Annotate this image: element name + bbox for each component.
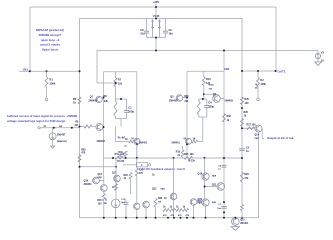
wire left box top <box>104 71 137 73</box>
svg-text:470: 470 <box>81 152 86 155</box>
transistor Q22 <box>152 175 177 200</box>
svg-text:10u: 10u <box>217 208 221 210</box>
svg-text:2N5089 accept?: 2N5089 accept? <box>39 33 62 37</box>
flag +30V label <box>153 0 159 4</box>
svg-text:open loop ~2: open loop ~2 <box>41 38 60 42</box>
svg-text:100: 100 <box>252 124 257 127</box>
svg-text:R1: R1 <box>50 78 54 82</box>
junction y158 a <box>112 157 114 159</box>
wire second rail <box>80 18 243 20</box>
svg-text:R15b: R15b <box>209 85 215 87</box>
svg-text:100k: 100k <box>260 83 266 86</box>
resistor R7 <box>114 72 123 99</box>
junction supply drop railC <box>223 50 225 52</box>
RC compensation right <box>197 99 214 142</box>
junction supply stem railA <box>155 6 157 8</box>
svg-text:470: 470 <box>139 172 144 175</box>
junction y158 b <box>173 157 175 159</box>
wire output net <box>242 70 277 72</box>
transistor Q17b <box>100 177 107 191</box>
junction bus-R8 <box>79 126 81 128</box>
wire left col lower <box>115 158 117 199</box>
current source I2 <box>49 128 66 146</box>
voltage source V1 name <box>153 15 160 18</box>
wire supply bottom stem <box>155 38 157 51</box>
junction base link <box>115 82 117 84</box>
wire mid rail <box>97 50 318 52</box>
capacitor C8 <box>140 19 149 38</box>
junction supply bottom <box>155 37 157 39</box>
wire right tail <box>204 158 206 200</box>
capacitor C6 <box>218 165 226 170</box>
junction y158 d <box>223 157 225 159</box>
label bias b <box>59 125 63 128</box>
junction RC top <box>120 98 122 100</box>
resistor R26 <box>241 119 244 127</box>
resistor R26 labels <box>244 111 249 118</box>
svg-text:Q15: Q15 <box>240 218 245 221</box>
resistor R13 <box>154 198 167 218</box>
junction supply midrail <box>155 50 157 52</box>
junction input-bus <box>79 70 81 72</box>
wire left border drop <box>29 7 31 71</box>
junction Q1-box <box>103 97 105 99</box>
port open circle bias <box>38 127 40 129</box>
wire bias source link <box>40 127 80 129</box>
svg-text:2N4403: 2N4403 <box>225 99 234 102</box>
svg-text:Q17: Q17 <box>112 173 117 175</box>
junction supply stem railB <box>155 18 157 20</box>
resistor R18 <box>192 137 203 143</box>
resistor R19 <box>176 146 184 158</box>
transistor Q21 <box>205 183 225 191</box>
svg-text:2N4401: 2N4401 <box>240 222 249 225</box>
transistor Q16 <box>84 177 104 186</box>
resistor R2 output branch <box>257 71 267 98</box>
svg-text:R33: R33 <box>158 198 163 200</box>
resistor R16 <box>202 71 211 99</box>
svg-text:set: set <box>158 201 162 204</box>
junction Q3-box <box>136 143 138 145</box>
transistor Q1 <box>89 96 104 103</box>
transistor Q2 <box>96 124 104 131</box>
wire left box left side <box>103 72 105 177</box>
comment block mid-left <box>7 114 78 123</box>
svg-text:22k: 22k <box>185 100 190 103</box>
svg-text:10u: 10u <box>140 33 145 36</box>
transistor Q3 <box>131 138 148 144</box>
resistor R22 <box>170 207 176 212</box>
svg-text:R20: R20 <box>184 153 189 156</box>
comment output <box>267 136 294 140</box>
wire left box right side <box>136 72 138 158</box>
current source I1 <box>103 199 120 218</box>
svg-text:R32: R32 <box>227 115 232 118</box>
capacitor C7 <box>217 204 227 210</box>
wire left bus <box>79 19 81 218</box>
port open circle <box>45 98 48 101</box>
transistor Q18 <box>134 203 140 218</box>
junction Q6-box <box>186 143 188 145</box>
svg-text:2N4403: 2N4403 <box>97 140 106 143</box>
label under y158 right <box>188 161 196 163</box>
junction row c <box>180 217 182 219</box>
label fb small <box>255 84 258 89</box>
svg-text:22k: 22k <box>104 100 109 103</box>
svg-text:Output at 1/2 of rail: Output at 1/2 of rail <box>267 136 294 140</box>
junction row a <box>167 217 169 219</box>
svg-text:2N4401: 2N4401 <box>139 141 148 144</box>
svg-text:npn: npn <box>255 138 260 140</box>
svg-text:Q14: Q14 <box>255 134 260 137</box>
junction bias 2 <box>71 127 73 129</box>
junction input-border <box>29 70 31 72</box>
resistor R35 on bus <box>78 148 86 162</box>
transistor Q6 <box>171 138 191 144</box>
svg-text:Q19: Q19 <box>198 173 203 175</box>
junction row d <box>186 217 188 219</box>
svg-text:Rc 4k7: Rc 4k7 <box>118 137 126 140</box>
wire bias link <box>80 166 117 168</box>
resistor R32 <box>223 114 232 123</box>
transistor Q20b <box>190 198 203 218</box>
transistor Q16 label top <box>98 174 103 179</box>
svg-text:12k: 12k <box>118 83 123 86</box>
wire right rail drop <box>275 7 277 71</box>
wire right box top <box>187 70 224 72</box>
transistor Q17 <box>112 173 120 191</box>
svg-text:buffered version of input sign: buffered version of input signal for pro… <box>7 114 78 118</box>
junction C7 top <box>223 201 225 203</box>
junction rail drop out <box>275 70 277 72</box>
resistor R8 <box>74 122 96 128</box>
svg-text:VB2: VB2 <box>224 67 230 71</box>
wire output collector link <box>242 127 255 129</box>
transistor Q5 <box>169 95 187 103</box>
junction C10 rail <box>125 217 127 219</box>
junction Q15 rail <box>234 217 236 219</box>
svg-text:100: 100 <box>245 102 250 105</box>
svg-text:1m: 1m <box>103 202 106 205</box>
svg-text:2N4403: 2N4403 <box>89 100 98 103</box>
wire Q4 base link <box>204 94 214 96</box>
svg-text:Spice basis: Spice basis <box>42 48 59 52</box>
svg-text:Q22: Q22 <box>152 188 157 190</box>
wire right box left side <box>186 71 188 158</box>
junction R13 rail <box>155 217 157 219</box>
junction R16 base <box>203 93 205 95</box>
junction out net <box>241 70 243 72</box>
voltage source V2 <box>315 51 324 63</box>
svg-text:npn: npn <box>161 188 166 190</box>
svg-text:R36: R36 <box>124 175 129 177</box>
resistor R25 <box>241 97 250 105</box>
resistor R21 <box>163 207 169 212</box>
label bias a <box>43 126 46 128</box>
resistor R24 <box>183 207 189 212</box>
wire Q3 column <box>116 127 137 159</box>
svg-text:R15: R15 <box>184 95 189 98</box>
resistor R10 <box>119 151 128 158</box>
svg-text:100: 100 <box>190 153 195 156</box>
wire input base link <box>97 82 116 84</box>
wire V+ rail top <box>30 6 276 8</box>
svg-text:R16: R16 <box>206 78 211 81</box>
junction leftbox y158 <box>136 157 138 159</box>
svg-text:(approx): (approx) <box>57 140 67 143</box>
resistor R15 label <box>184 95 189 103</box>
svg-text:2N4403: 2N4403 <box>169 100 178 103</box>
label Q2 value <box>97 140 106 143</box>
junction Q21 link <box>204 186 206 188</box>
svg-text:npn: npn <box>212 176 217 178</box>
transistor Q20 <box>197 199 216 218</box>
transistor Q14 <box>255 125 263 140</box>
svg-text:npn: npn <box>212 202 217 204</box>
wire right bus <box>241 19 243 218</box>
svg-text:MPSA18 (preferred): MPSA18 (preferred) <box>36 28 64 32</box>
svg-text:Rf 22k: Rf 22k <box>188 161 196 163</box>
resistor R1 <box>45 71 56 98</box>
net label OUT <box>278 69 286 73</box>
ground bias stem <box>51 146 55 148</box>
RC compensation left <box>114 99 134 127</box>
wire directive stub <box>123 164 136 166</box>
transistor Q19b <box>143 201 150 218</box>
capacitor C10 <box>121 199 128 218</box>
svg-text:AC DC feedback network - low f: AC DC feedback network - low fc <box>142 167 186 171</box>
svg-text:set: set <box>59 125 63 128</box>
junction y158 c <box>204 157 206 159</box>
svg-text:R25: R25 <box>245 98 250 101</box>
svg-text:10u: 10u <box>169 33 174 36</box>
svg-text:Q20: Q20 <box>197 201 202 203</box>
wire right supply drop <box>223 51 225 218</box>
junction R30 rail <box>103 217 105 219</box>
resistor R28 <box>241 172 250 182</box>
resistor R27 <box>247 124 257 130</box>
resistor R5 on bus <box>73 97 81 105</box>
wire lower mid <box>104 157 243 159</box>
junction R10 <box>125 157 127 159</box>
resistor R29 on bus <box>241 205 244 211</box>
svg-text:100k: 100k <box>50 82 56 86</box>
resistor R30 <box>97 191 105 217</box>
value row under resistors <box>163 214 190 217</box>
wire output node drop <box>262 128 264 138</box>
net label IN <box>23 68 28 72</box>
svg-text:V2: V2 <box>321 51 325 55</box>
svg-text:R30: R30 <box>97 200 102 202</box>
junction bus 108 <box>241 107 243 109</box>
net label VB2 <box>224 67 230 71</box>
junction rightbox rail <box>223 217 225 219</box>
svg-text:100p: 100p <box>208 106 214 109</box>
comment block top-left <box>36 28 64 52</box>
svg-text:2N5457: 2N5457 <box>57 133 66 136</box>
wire input net <box>19 70 80 72</box>
wire tail mid <box>173 158 175 218</box>
wire bottom rail <box>80 217 259 219</box>
junction C7 bot <box>223 211 225 213</box>
svg-text:100p: 100p <box>128 111 134 114</box>
junction right bus rail <box>241 217 243 219</box>
junction row b <box>173 217 175 219</box>
svg-text:2N4401: 2N4401 <box>171 141 180 144</box>
comment center <box>142 167 186 171</box>
ground symbol far right <box>315 62 321 66</box>
wire Q15 stem <box>234 225 236 226</box>
transistor Q19 <box>198 173 217 180</box>
junction Q20 rail <box>205 217 207 219</box>
junction Q19b rail <box>145 217 147 219</box>
svg-text:Rf 22k: Rf 22k <box>117 161 125 163</box>
svg-text:R28: R28 <box>244 173 249 176</box>
svg-text:R19: R19 <box>176 151 181 153</box>
svg-text:+30V: +30V <box>153 0 159 4</box>
svg-text:Q21: Q21 <box>212 183 217 186</box>
junction input-R1 <box>46 70 48 72</box>
svg-text:OUT1: OUT1 <box>278 69 286 73</box>
junction y158 e <box>241 157 243 159</box>
label under y158 <box>117 161 125 163</box>
port circle mid <box>148 164 150 166</box>
svg-text:usual 3 stacks: usual 3 stacks <box>40 43 61 47</box>
junction output node <box>257 70 259 72</box>
transistor Q15 <box>232 218 249 226</box>
junction bias link b <box>115 166 117 168</box>
transistor Q4 <box>209 85 234 103</box>
resistor R6 label <box>104 95 109 103</box>
wire supply stem <box>155 4 157 19</box>
svg-text:100: 100 <box>120 153 125 156</box>
capacitor C5 <box>239 147 250 154</box>
port open circle out <box>257 98 260 101</box>
wire mid rail left drop <box>96 51 98 84</box>
svg-text:47k: 47k <box>244 177 249 180</box>
wire ref stem <box>317 51 319 63</box>
junction Q2-box <box>103 126 105 128</box>
wire right col lower <box>136 158 138 203</box>
svg-text:2N4401: 2N4401 <box>84 183 93 186</box>
label col mid <box>118 137 126 140</box>
resistor R11 <box>115 153 125 159</box>
junction I1 rail <box>115 217 117 219</box>
ground symbol right-bottom <box>231 227 239 231</box>
resistor R23 <box>176 207 182 212</box>
junction Q18 rail <box>136 217 138 219</box>
svg-text:IN1: IN1 <box>23 68 28 72</box>
junction bias link a <box>79 166 81 168</box>
capacitor C9 <box>163 19 173 38</box>
svg-text:voltage selected legs region f: voltage selected legs region for THD des… <box>7 119 66 123</box>
resistor R20 <box>184 153 194 159</box>
junction bias 1 <box>53 127 55 129</box>
svg-text:Q16: Q16 <box>84 180 89 183</box>
svg-text:R11: R11 <box>115 153 120 156</box>
junction Q5-box <box>186 97 188 99</box>
wire Q14 emitter <box>258 132 260 218</box>
resistor R9 <box>116 138 135 147</box>
resistor R36 <box>124 173 133 195</box>
junction Q20b rail <box>193 217 195 219</box>
voltage source V1 body <box>147 20 166 38</box>
directive box <box>136 163 147 167</box>
junction RC right top <box>202 98 204 100</box>
resistor R31 <box>135 168 144 176</box>
junction bus 128 <box>241 127 243 129</box>
